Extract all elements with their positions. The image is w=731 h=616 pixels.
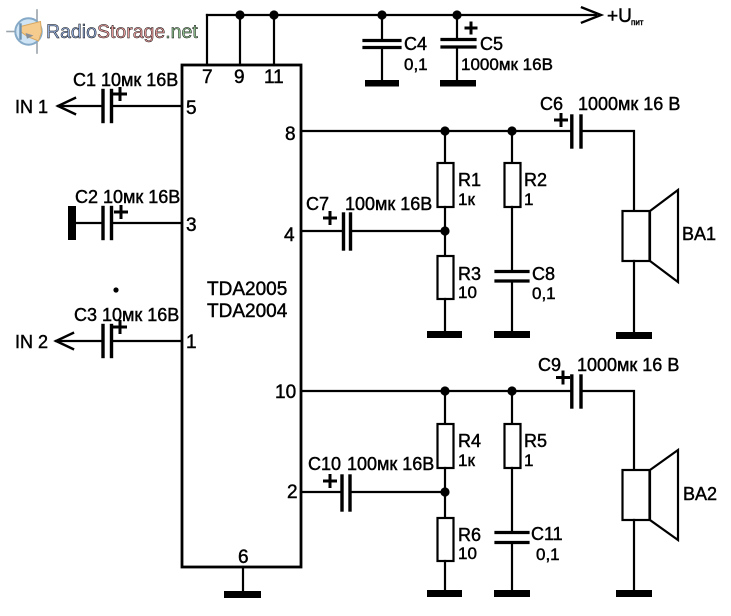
svg-text:BA2: BA2 [683, 484, 717, 504]
ground BA2 [616, 590, 652, 597]
svg-text:1000мк 16 В: 1000мк 16 В [577, 355, 679, 375]
node junction R1/R3/C7 [440, 226, 449, 235]
resistor R1 [438, 131, 454, 207]
svg-text:C8: C8 [532, 264, 555, 284]
resistor R5 [505, 391, 521, 468]
wire bar to C2 [76, 222, 101, 224]
svg-text:R3: R3 [458, 264, 481, 284]
wire C11 to ground [511, 543, 513, 590]
wire pin4 to C7 [301, 230, 342, 232]
capacitor C2 [103, 207, 127, 239]
capacitor C6 [556, 115, 582, 148]
capacitor C3 [103, 322, 126, 357]
node junction R2/pin8 [507, 126, 516, 135]
wire BA2 to ground [633, 520, 635, 590]
svg-text:100мк 16В: 100мк 16В [347, 454, 434, 474]
resistor R2 [505, 131, 521, 207]
svg-text:5: 5 [186, 98, 197, 119]
label C9 value [538, 355, 679, 375]
label C5 value 1000mk 16V [461, 34, 553, 74]
svg-text:1к: 1к [458, 190, 475, 209]
label +Upit [607, 6, 644, 27]
wire pin7 to rail [206, 15, 208, 65]
wire C9 to BA2 [583, 391, 634, 470]
node junction pin11/rail [269, 10, 278, 19]
resistor R4 [438, 391, 454, 468]
svg-text:BA1: BA1 [682, 224, 716, 244]
svg-text:+U: +U [607, 6, 632, 27]
wire C5 to ground [456, 47, 458, 80]
label R1 1k [458, 170, 481, 209]
svg-text:1: 1 [186, 332, 197, 353]
svg-text:C5: C5 [480, 34, 503, 54]
node junction R5/pin10 [507, 386, 516, 395]
capacitor C10 [325, 476, 351, 511]
capacitor C11 [496, 533, 528, 543]
svg-text:R4: R4 [458, 431, 481, 451]
ground C4 [365, 80, 399, 87]
node junction C4/rail [377, 10, 386, 19]
svg-text:7: 7 [202, 67, 213, 88]
wire C3 to pin1 [113, 340, 182, 342]
svg-text:C6: C6 [540, 94, 563, 114]
svg-text:4: 4 [284, 225, 295, 246]
svg-text:пит: пит [631, 18, 644, 27]
wire pin9 to rail [239, 15, 241, 65]
ground pin6 [224, 591, 261, 598]
svg-text:0,1: 0,1 [404, 55, 428, 74]
ground C11 [494, 590, 530, 597]
svg-text:C2 10мк 16В: C2 10мк 16В [75, 187, 180, 207]
logo RadioStorage.net [7, 10, 198, 53]
wire C2 to pin3 [113, 222, 182, 224]
ground R3 [427, 331, 462, 338]
svg-text:R5: R5 [524, 431, 547, 451]
capacitor C1 [103, 89, 126, 122]
stray dot mark [113, 287, 118, 292]
label R2 1 [524, 170, 547, 209]
svg-text:10: 10 [275, 382, 296, 403]
wire R1 to R3 [444, 207, 446, 256]
label C11 value 0,1 [531, 524, 563, 564]
speaker BA2 [623, 450, 679, 540]
wire pin8 net [301, 130, 570, 132]
wire pin10 net [301, 390, 570, 392]
label C6 value [540, 94, 680, 114]
wire C10 to node [352, 491, 445, 493]
svg-text:C3 10мк 16В: C3 10мк 16В [74, 305, 179, 325]
wire C7 to node [352, 230, 445, 232]
svg-text:R1: R1 [458, 170, 481, 190]
svg-text:TDA2004: TDA2004 [207, 301, 288, 322]
svg-text:C11: C11 [531, 524, 563, 544]
resistor R6 [438, 518, 454, 561]
svg-text:TDA2005: TDA2005 [207, 279, 287, 300]
svg-text:C7: C7 [306, 194, 329, 214]
svg-text:1000мк 16В: 1000мк 16В [461, 55, 553, 74]
svg-text:0,1: 0,1 [532, 284, 556, 303]
wire pin2 to C10 [301, 491, 340, 493]
wire R2 to C8 [511, 207, 513, 271]
wire IN1 to C1 [58, 105, 101, 107]
svg-text:6: 6 [238, 547, 249, 568]
svg-text:9: 9 [234, 67, 245, 88]
ground C5 [440, 80, 476, 87]
node junction pin9/rail [235, 10, 244, 19]
svg-text:10: 10 [458, 283, 477, 302]
svg-text:1000мк 16 В: 1000мк 16 В [578, 94, 680, 114]
svg-text:C9: C9 [538, 355, 561, 375]
svg-text:R2: R2 [524, 170, 547, 190]
wire IN2 to C3 [56, 340, 101, 342]
wire R6 to ground [444, 561, 446, 590]
node junction R1/pin8 [440, 126, 449, 135]
svg-text:11: 11 [264, 67, 284, 88]
label R6 10 [458, 525, 481, 563]
resistor R3 [438, 256, 454, 299]
IC U1 TDA2005/TDA2004 body [182, 65, 301, 567]
svg-text:1к: 1к [458, 451, 475, 470]
svg-text:RadioStorage.net: RadioStorage.net [46, 21, 198, 43]
speaker BA1 [623, 190, 679, 282]
svg-text:1: 1 [524, 451, 533, 470]
IC name label TDA2005 TDA2004 [207, 279, 288, 322]
wire BA1 to ground [633, 261, 635, 332]
wire pin6 to ground [242, 567, 244, 591]
svg-text:R6: R6 [458, 525, 481, 545]
label C8 value 0,1 [532, 264, 556, 303]
arrow IN2 [56, 333, 73, 349]
label R5 1 [524, 431, 547, 470]
svg-text:3: 3 [186, 215, 197, 236]
ground C8 [494, 331, 530, 338]
wire C1 to pin5 [113, 105, 182, 107]
node junction R4/R6/C10 [440, 487, 449, 496]
capacitor C5 [442, 23, 476, 47]
svg-text:IN 2: IN 2 [15, 332, 48, 352]
ground BA1 [616, 332, 652, 339]
wire power rail [207, 14, 596, 16]
svg-text:10: 10 [458, 544, 477, 563]
svg-text:2: 2 [287, 482, 298, 503]
ground R6 [427, 590, 462, 597]
node junction R4/pin10 [440, 386, 449, 395]
wire C8 to ground [511, 281, 513, 331]
wire R3 to ground [444, 299, 446, 331]
wire R4 to R6 [444, 468, 446, 518]
terminal bar C2 [68, 206, 76, 240]
capacitor C7 [325, 213, 351, 250]
svg-text:C10: C10 [308, 454, 341, 474]
label C10 value [308, 454, 434, 474]
wire R5 to C11 [511, 468, 513, 532]
label R3 10 [458, 264, 481, 302]
svg-text:C4: C4 [404, 34, 427, 54]
capacitor C8 [496, 272, 528, 282]
svg-text:C1 10мк 16В: C1 10мк 16В [73, 70, 178, 90]
svg-text:8: 8 [285, 124, 296, 145]
capacitor C9 [558, 372, 582, 407]
svg-text:0,1: 0,1 [536, 545, 560, 564]
wire C4 to ground [381, 48, 383, 80]
wire C6 to BA1 [583, 131, 634, 211]
svg-text:1: 1 [524, 190, 533, 209]
node junction C5/rail [452, 10, 461, 19]
arrow IN1 [58, 98, 75, 114]
label C4 value 0,1 [404, 34, 428, 74]
svg-text:100мк 16В: 100мк 16В [345, 194, 432, 214]
wire pin11 to rail [273, 15, 275, 65]
arrow +U power [582, 8, 601, 23]
svg-text:IN 1: IN 1 [15, 97, 48, 117]
wire rail to C4 [381, 15, 383, 40]
capacitor C4 [364, 41, 400, 48]
wire rail to C5 [456, 15, 458, 39]
label C7 value [306, 194, 432, 214]
label R4 1k [458, 431, 481, 470]
